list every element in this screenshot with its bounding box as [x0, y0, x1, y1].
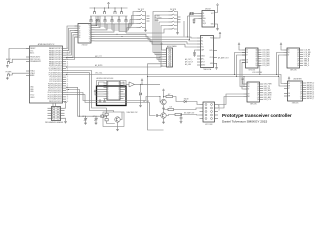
wire U2 Y6 right to U6 riser: [95, 39, 198, 44]
svg-text:PC5/TDI/PCINT21: PC5/TDI/PCINT21: [49, 77, 62, 79]
connector J4 pads: [169, 49, 171, 66]
svg-text:Y6: Y6: [89, 39, 91, 41]
svg-text:Prototype transceiver controll: Prototype transceiver controller: [222, 113, 292, 118]
svg-text:VDD: VDD: [210, 38, 213, 40]
svg-text:SW_ROT: SW_ROT: [138, 9, 145, 11]
ground under C8: [180, 121, 183, 124]
svg-text:QH: QH: [255, 65, 257, 67]
svg-text:1MHZ REF OSC: 1MHZ REF OSC: [127, 112, 139, 114]
wire U2 Y2 to matrix column: [95, 24, 108, 30]
svg-text:X1: X1: [79, 28, 81, 30]
svg-text:Q: Q: [118, 89, 119, 91]
svg-text:PD1/TXD0/PCINT25: PD1/TXD0/PCINT25: [48, 86, 62, 88]
push button S2 power: [7, 73, 10, 76]
ground under Q4: [162, 107, 165, 110]
IC U2 74C922 keypad encoder body: [78, 24, 91, 44]
svg-text:MR: MR: [246, 62, 248, 64]
svg-text:LCD_DB3: LCD_DB3: [262, 56, 269, 58]
svg-text:GND1: GND1: [201, 56, 205, 58]
wire power flag to U7 pin1: [239, 46, 242, 50]
svg-text:D: D: [108, 83, 109, 85]
svg-text:QE: QE: [297, 58, 299, 60]
wire S2 to U1: [10, 73, 30, 75]
svg-text:1N4148: 1N4148: [184, 98, 189, 100]
svg-text:GND3: GND3: [30, 97, 34, 99]
IC U6 left pin stubs: [197, 38, 201, 65]
connector J1 left pin stubs: [48, 108, 52, 118]
wire U8 DS pin from lower bus: [277, 53, 284, 75]
crystal Y2 at U3: [190, 12, 193, 15]
power flag above R9: [163, 89, 165, 92]
wire U8 SH pin from lower bus: [279, 55, 284, 77]
svg-text:ST: ST: [246, 55, 248, 57]
wire U7 DS pin from lower bus: [235, 53, 246, 75]
svg-text:QG: QG: [297, 63, 299, 65]
power flag above keypad matrix: [108, 2, 110, 5]
svg-text:RESET: RESET: [6, 59, 11, 61]
svg-text:VOL: VOL: [201, 47, 204, 49]
svg-text:METER_1: METER_1: [307, 85, 314, 87]
svg-text:SEG_B: SEG_B: [304, 61, 309, 63]
svg-text:LCD_RS: LCD_RS: [304, 50, 310, 52]
matrix fan-out elbow wire 4: [112, 24, 137, 31]
wire J3 pin1 down to J4 pin2: [153, 12, 169, 53]
svg-text:PC2/TCK/PCINT18: PC2/TCK/PCINT18: [49, 70, 62, 72]
wire power flag to U9: [243, 81, 244, 84]
svg-text:MIC_PTT: MIC_PTT: [95, 56, 102, 58]
svg-text:QE: QE: [300, 91, 302, 93]
svg-text:LED_MOD: LED_MOD: [264, 95, 273, 97]
svg-text:QF: QF: [257, 95, 259, 97]
svg-text:X0: X0: [79, 26, 81, 28]
svg-text:QB: QB: [297, 52, 299, 54]
wire Q3 collector to module: [120, 112, 122, 120]
wire frame above DIP right: [120, 81, 126, 87]
diode D2 RF detector: [139, 93, 141, 96]
svg-text:LCD_DB5: LCD_DB5: [262, 61, 269, 63]
svg-text:LCD_BL: LCD_BL: [304, 56, 310, 58]
wire U1 to PTT cluster node: [66, 93, 160, 101]
IC U5 right pin stubs: [120, 83, 124, 98]
wire J3 pin2 down to J4 pin3: [155, 15, 169, 55]
svg-text:METER_6: METER_6: [307, 96, 314, 98]
svg-text:MR: MR: [288, 96, 290, 98]
matrix fan-out elbow wire 1: [91, 12, 137, 25]
svg-text:QG: QG: [300, 96, 302, 98]
svg-text:D: D: [108, 85, 109, 87]
svg-text:Q: Q: [118, 96, 119, 98]
power flag above U9: [242, 78, 244, 81]
wire U1 PD down left bundle: [66, 73, 114, 112]
IC U6 TDA7052 audio amplifier body: [201, 36, 214, 68]
wire U2 pin4 down to U1 PA3: [66, 33, 78, 56]
wire U1 PD to module line1: [66, 87, 99, 116]
wire power flag to U6 VDD: [217, 35, 220, 38]
svg-text:OUT-: OUT-: [210, 57, 214, 59]
svg-text:PC3/TMS/PCINT19: PC3/TMS/PCINT19: [49, 72, 62, 74]
svg-text:LCD_DB6: LCD_DB6: [262, 63, 269, 65]
svg-text:QF: QF: [256, 61, 258, 63]
IC U1 left pin stubs: [26, 49, 30, 76]
svg-text:PB7/SCK/PCINT15: PB7/SCK/PCINT15: [49, 101, 62, 103]
IC U2 left pin stubs: [75, 26, 79, 37]
wire U2 pin6 down to U1 PA5: [66, 37, 78, 60]
svg-text:16: 16: [67, 101, 69, 103]
IC U2 right pin stubs: [91, 26, 95, 41]
wire frame above DIP inner: [99, 82, 125, 86]
wires U5 right pins to module edge: [124, 87, 127, 96]
ground under C4: [193, 54, 196, 57]
wire U7 OE pin down to U9: [242, 63, 246, 90]
svg-text:PC4/TDO/PCINT20: PC4/TDO/PCINT20: [49, 75, 62, 77]
wire power flag down to R9 node: [163, 92, 165, 99]
svg-text:POWER: POWER: [6, 72, 13, 74]
branch wire down to U9 pin2: [243, 77, 246, 87]
svg-text:QE: QE: [256, 58, 258, 60]
svg-text:D: D: [108, 98, 109, 100]
svg-text:METER_5: METER_5: [307, 94, 314, 96]
svg-text:METER_0: METER_0: [307, 83, 314, 85]
svg-text:D: D: [108, 89, 109, 91]
svg-text:MR: MR: [248, 96, 250, 98]
wire Q3 emitter to ground: [117, 122, 119, 128]
svg-text:QC: QC: [255, 54, 257, 56]
svg-text:DS: DS: [288, 50, 290, 52]
transistor Q3 oscillator: [115, 117, 120, 122]
svg-text:74HC595: 74HC595: [290, 69, 297, 71]
wire power flag to U10: [288, 80, 290, 81]
IC U5 DDS chip body: [107, 81, 120, 100]
junction dot at R9 node: [163, 96, 164, 97]
svg-text:Q: Q: [118, 91, 119, 93]
svg-text:Daniel Tufvesson SM0KGY 2015: Daniel Tufvesson SM0KGY 2015: [222, 120, 267, 124]
svg-text:SEG_C: SEG_C: [304, 63, 310, 65]
svg-text:LCD_RW: LCD_RW: [304, 52, 311, 54]
svg-text:QC: QC: [300, 87, 302, 89]
power flag at J1: [65, 101, 67, 104]
power flag left of module: [94, 90, 96, 93]
svg-text:IN+: IN+: [201, 41, 203, 43]
svg-text:PD0/RXD0/PCINT24: PD0/RXD0/PCINT24: [48, 83, 62, 85]
capacitor C4 at U6 volume pin: [193, 53, 196, 54]
wire S1 to U1 pin PB0: [10, 59, 30, 63]
wires U5 left pins to module edge: [97, 90, 104, 97]
svg-text:PD3/TXD1/PCINT27: PD3/TXD1/PCINT27: [48, 90, 62, 92]
svg-text:Y7: Y7: [89, 41, 91, 43]
wire D2 to ground: [140, 95, 142, 104]
ground under Q5: [162, 121, 165, 124]
capacitor C6 inside module: [99, 101, 102, 102]
svg-text:ST: ST: [288, 88, 290, 90]
keypad buttons row 2 with stubs: [90, 19, 93, 22]
svg-text:34: 34: [67, 61, 69, 63]
svg-text:SEG_D: SEG_D: [304, 65, 310, 67]
svg-text:MIC/PTT: MIC/PTT: [217, 105, 219, 111]
svg-text:QD: QD: [297, 56, 299, 58]
svg-text:X3: X3: [79, 33, 81, 35]
wire from J3 bus down to audio lines: [183, 21, 185, 37]
power flag above U8: [280, 43, 282, 46]
wire U3 SCL pin left: [188, 15, 199, 17]
trimmer capacitor C10: [95, 116, 98, 122]
ground at J1: [64, 120, 67, 123]
wire U2 Y7 right to U6 riser: [95, 41, 198, 47]
wire U2 Y1 to matrix column: [95, 16, 101, 28]
svg-text:QD: QD: [255, 56, 257, 58]
svg-text:SW_BTN: SW_BTN: [170, 9, 176, 11]
wire U2 pin5 down to U1 PA4: [66, 35, 78, 58]
J2 left pin stubs: [137, 12, 140, 28]
wire frame above DIP left: [97, 81, 108, 87]
wire U2 pin3 down to U1 PA2: [66, 30, 78, 53]
wire from U3 SCL down to bus: [189, 14, 191, 40]
svg-text:PC0/SCL/PCINT16: PC0/SCL/PCINT16: [49, 66, 62, 68]
wire J1 row2 up to U1: [55, 103, 57, 107]
wire U2 pin2 down to U1 PA1: [66, 28, 78, 51]
svg-text:Y5: Y5: [89, 36, 91, 38]
svg-text:25: 25: [67, 81, 69, 83]
trimmer capacitor C9: [84, 116, 87, 122]
wire power flag into module: [95, 93, 97, 95]
power flag above gate output: [141, 79, 143, 82]
svg-text:SH: SH: [246, 52, 248, 54]
svg-text:OSC_SCL: OSC_SCL: [95, 73, 103, 75]
wire power flag to gate node: [141, 82, 143, 85]
svg-text:27: 27: [67, 77, 69, 79]
connector J1 pads: [53, 107, 60, 119]
svg-text:QF: QF: [297, 61, 299, 63]
svg-text:SCL: SCL: [203, 20, 206, 22]
svg-text:Y2: Y2: [89, 30, 91, 32]
junction dot at C8 tap: [181, 114, 182, 115]
wire J4 pin7 down to audio cluster: [148, 64, 164, 130]
IC U6 right pin stubs: [214, 38, 218, 64]
wire from U3 SDA down to bus: [187, 16, 189, 37]
ground under S1: [6, 65, 9, 68]
wire net MIC_PTT from U1 to J4: [66, 56, 163, 59]
svg-text:LCD_EN: LCD_EN: [304, 54, 311, 56]
wire to Q4 base: [159, 97, 162, 103]
IC U7 display driver 74HC595: [246, 48, 259, 68]
svg-text:LCD_DB0: LCD_DB0: [262, 50, 269, 52]
svg-text:QB: QB: [256, 52, 258, 54]
svg-text:DS1307: DS1307: [205, 8, 211, 10]
wire power flag to J1 pin2: [65, 104, 66, 108]
svg-text:D: D: [108, 94, 109, 96]
gate U5B output buffer: [129, 82, 135, 87]
wire net DISP long horizontal 3: [148, 77, 285, 87]
svg-text:D: D: [108, 91, 109, 93]
svg-text:Y0: Y0: [89, 25, 91, 27]
wire U2 Y0 to matrix column: [95, 16, 97, 26]
svg-text:QF: QF: [300, 94, 302, 96]
IC U3 DS1307 body: [202, 11, 215, 28]
matrix row2 wire: [88, 23, 131, 25]
wire U2 Y5 right to U6 riser: [95, 37, 198, 42]
svg-text:MIC CONN: MIC CONN: [205, 124, 212, 126]
IC U10 LED driver 74HC595: [288, 81, 303, 101]
svg-text:ST: ST: [248, 89, 250, 91]
wire U2 pin1 down to U1 PA0: [66, 26, 78, 49]
wire J3 pin4 down to J4 pin6: [159, 22, 169, 62]
J3 right bus wire: [176, 12, 178, 32]
transistor Q4 PTT driver: [161, 99, 166, 104]
resistor R11: [175, 113, 182, 115]
svg-text:QD: QD: [300, 89, 302, 91]
svg-text:Y3: Y3: [89, 32, 91, 34]
wire J3 pin5 down to J4 pin8: [161, 26, 169, 67]
junction dot at U1 PD pin: [67, 87, 68, 88]
diode ladder J2 items: [139, 10, 144, 11]
svg-text:X4: X4: [79, 35, 81, 37]
wire crystal to base node: [104, 115, 107, 117]
svg-text:4K7: 4K7: [168, 94, 171, 96]
svg-text:LCD_DB4: LCD_DB4: [262, 58, 269, 60]
ground under S2: [6, 77, 9, 80]
svg-text:QH: QH: [257, 99, 259, 101]
power flag above U10: [288, 77, 290, 80]
svg-text:VCC2: VCC2: [30, 95, 34, 97]
svg-text:DS: DS: [288, 83, 290, 85]
svg-text:OE: OE: [248, 94, 250, 96]
IC U3 left pin stubs: [199, 14, 203, 19]
svg-text:Q: Q: [118, 94, 119, 96]
svg-text:QG: QG: [257, 97, 259, 99]
svg-text:Q: Q: [118, 85, 119, 87]
wire R7 chain inside oscillator: [107, 108, 115, 124]
wire U7 ST pin down to U9: [240, 60, 246, 87]
svg-text:LED METER: LED METER: [293, 79, 303, 81]
IC U1 ATMEGA1284P-PU microcontroller body: [30, 46, 63, 103]
svg-text:PC7/TOSC2/PC23: PC7/TOSC2/PC23: [49, 81, 62, 83]
svg-text:TDA7052A: TDA7052A: [203, 68, 212, 71]
svg-text:10K: 10K: [170, 106, 173, 108]
svg-text:PC6/TOSC1/PC22: PC6/TOSC1/PC22: [49, 79, 62, 81]
svg-text:OE: OE: [288, 93, 290, 95]
wire node to R9: [164, 96, 167, 98]
ground under C10: [95, 122, 98, 125]
svg-text:QE: QE: [257, 92, 259, 94]
connector J5 right pin stubs: [215, 105, 219, 119]
transistor Q5 mic amp: [161, 113, 166, 118]
svg-text:METER_4: METER_4: [307, 91, 314, 93]
wire R11 to J5 pin4: [182, 114, 200, 117]
keypad buttons row 1 with drop wires: [93, 11, 96, 14]
wire gate node down to D2: [140, 84, 142, 92]
connector J4 body: [167, 48, 173, 67]
svg-text:METER_2: METER_2: [307, 87, 314, 89]
svg-text:OUT+: OUT+: [209, 50, 213, 52]
svg-text:PD2/RXD1/PCINT26: PD2/RXD1/PCINT26: [48, 88, 62, 90]
svg-text:LED_LCK: LED_LCK: [264, 99, 272, 101]
svg-text:Q: Q: [118, 98, 119, 100]
svg-text:VP: VP: [201, 38, 203, 40]
svg-text:74HC595: 74HC595: [248, 69, 255, 71]
push button S1 reset: [7, 61, 10, 64]
crystal X1: [99, 115, 104, 118]
svg-text:SH: SH: [288, 52, 290, 54]
power flag above U2: [96, 19, 98, 22]
svg-text:GND: GND: [211, 23, 214, 25]
matrix column drop wires: [90, 16, 92, 24]
IC U8 display driver 74HC595: [287, 48, 300, 68]
wire U6 GND pin to ground: [216, 64, 219, 67]
wire net OSC_SCL long horizontal to U10: [66, 75, 284, 84]
svg-text:METER_3: METER_3: [307, 89, 314, 91]
svg-text:17: 17: [67, 99, 69, 101]
module M1 bold outline: [97, 86, 127, 106]
svg-text:X2: X2: [203, 15, 205, 17]
ground under D2: [139, 104, 142, 107]
svg-text:PD4/OC1B/PCINT28: PD4/OC1B/PCINT28: [48, 92, 62, 94]
J3 right stubs: [178, 17, 181, 22]
svg-text:VCC: VCC: [211, 13, 214, 15]
wire power flag to U2 pin: [95, 22, 97, 26]
J2 right bus wire: [144, 12, 146, 30]
oscillator box outline: [103, 112, 124, 127]
svg-text:X2: X2: [79, 30, 81, 32]
svg-text:PD6/OC2B/PCINT30: PD6/OC2B/PCINT30: [48, 97, 62, 99]
svg-text:LED_PWR: LED_PWR: [264, 84, 273, 86]
ground under U6 GND pin: [215, 67, 218, 70]
diode D3: [184, 100, 186, 102]
wire J5 right pin2 up to U9: [218, 97, 244, 109]
matrix row1 wire: [90, 15, 128, 17]
wire U1 to mic amp base: [66, 95, 156, 116]
svg-text:QB: QB: [300, 85, 302, 87]
svg-text:33: 33: [67, 64, 69, 66]
power flag above U7: [238, 43, 240, 46]
svg-text:31: 31: [67, 68, 69, 70]
connector J5 left pin stubs: [200, 105, 204, 119]
svg-text:Y4: Y4: [89, 34, 91, 36]
junction dot AF_MUTE at U1: [66, 67, 67, 68]
svg-text:LED_TX: LED_TX: [264, 86, 271, 88]
connector J4 left pin stubs: [163, 50, 167, 66]
IC U9 LED driver 74HC595: [247, 82, 260, 102]
junction dot at gate output: [140, 84, 141, 85]
ground under C3: [193, 21, 196, 24]
svg-text:SH: SH: [288, 86, 290, 88]
capacitor C8: [180, 115, 183, 121]
svg-text:74HC595: 74HC595: [250, 103, 257, 105]
J3 left pin stubs: [169, 12, 172, 30]
capacitor C11 on Q5 base: [156, 114, 157, 117]
svg-text:D: D: [108, 87, 109, 89]
svg-text:LED_RX: LED_RX: [264, 88, 271, 90]
svg-text:QC: QC: [297, 54, 299, 56]
svg-text:D: D: [108, 96, 109, 98]
svg-text:Q: Q: [118, 87, 119, 89]
junction dot at U1 PD pin 2: [68, 89, 69, 90]
wire U3 crystal pin: [194, 18, 199, 21]
wire J1 row1 up to U1: [52, 103, 54, 107]
resistor R7: [105, 113, 108, 115]
keypad matrix top bus wire: [90, 7, 128, 9]
svg-text:QH: QH: [297, 65, 299, 67]
svg-text:QG: QG: [255, 63, 257, 65]
wire D3 to J5 pin1: [186, 102, 199, 105]
ground under J3: [176, 32, 179, 35]
svg-text:GND: GND: [210, 63, 213, 65]
wire power flag to U3 VCC: [215, 7, 218, 13]
wire J5 right pin1 up to U9: [218, 94, 244, 105]
diode ladder J3 items: [171, 10, 176, 11]
connector J1 right pin stubs: [61, 108, 65, 118]
svg-text:DS: DS: [246, 50, 248, 52]
wire U1 PD to trimmer bus: [66, 90, 80, 117]
wire U1 PD to oscillator top: [66, 71, 107, 109]
